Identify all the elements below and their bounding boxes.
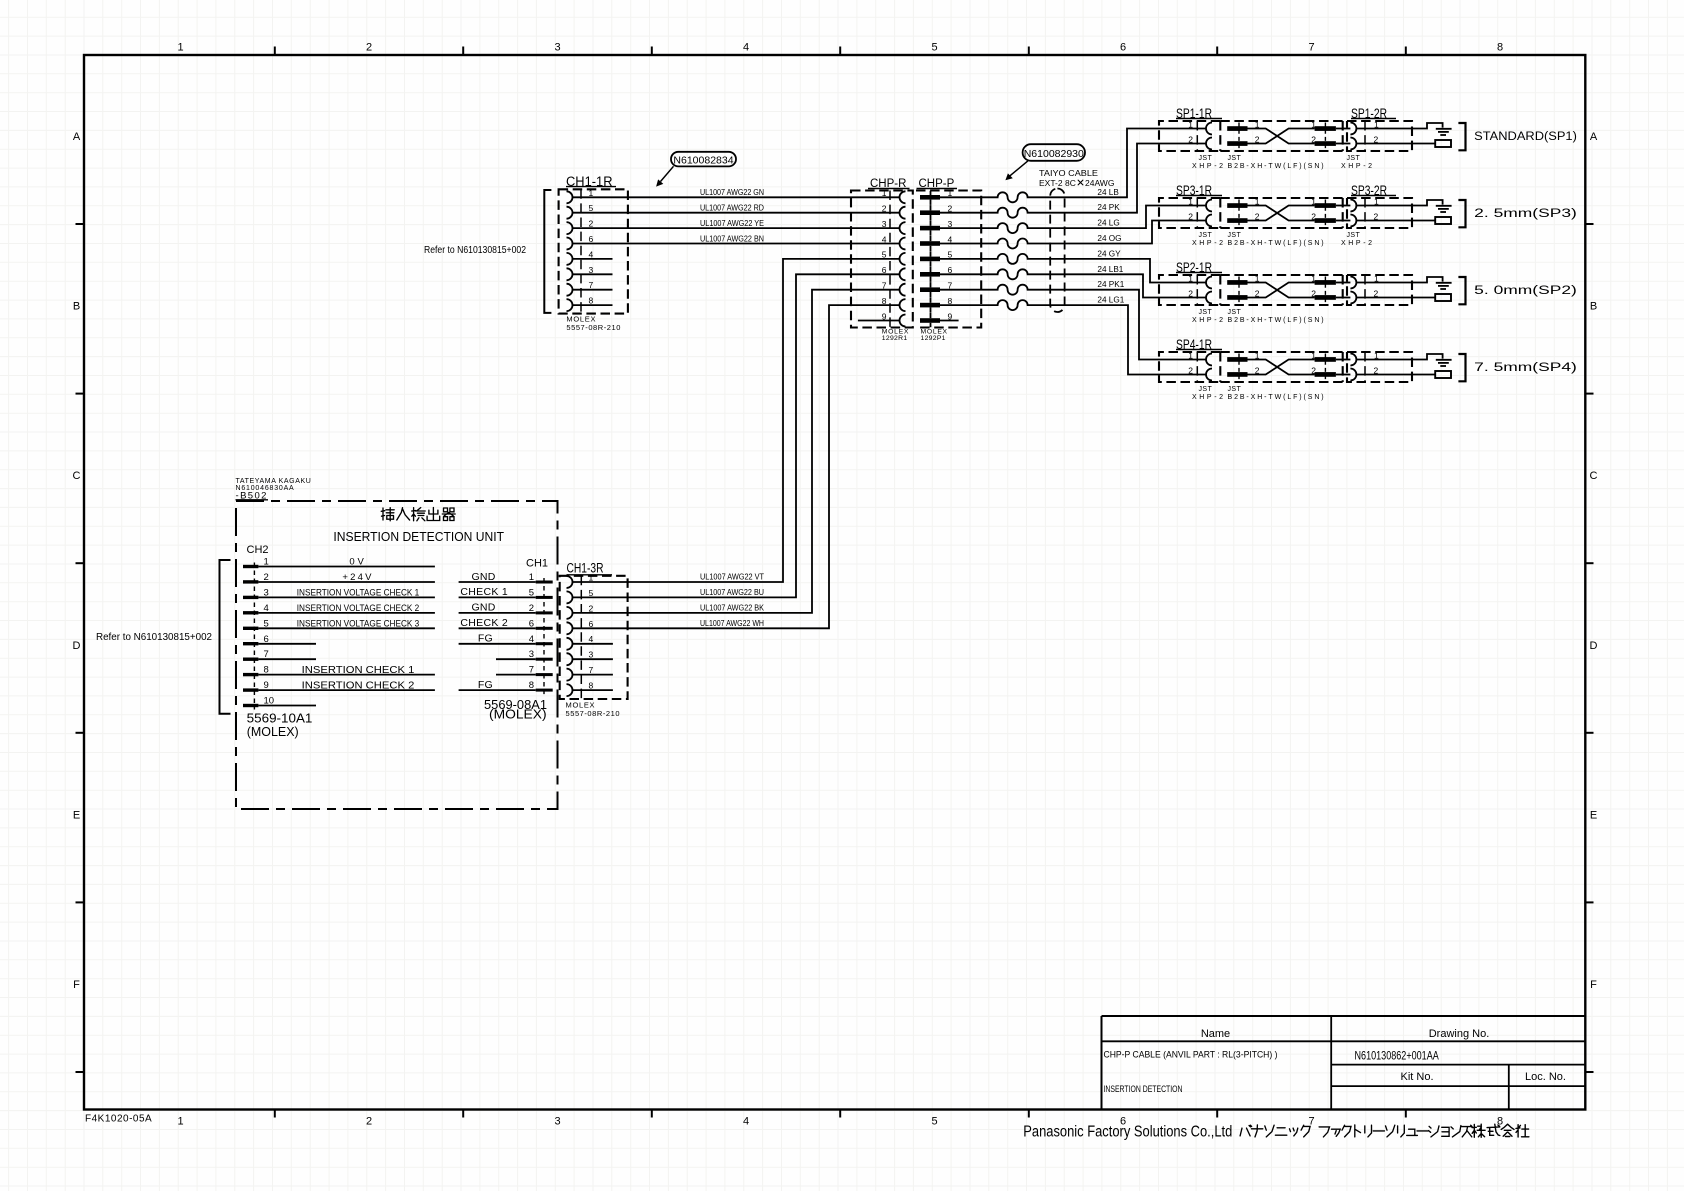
svg-text:7: 7 (589, 280, 594, 290)
insertion detection unit box -B502 (236, 501, 558, 809)
wire CH1 row 1 (459, 581, 536, 583)
svg-text:Panasonic Factory Solutions Co: Panasonic Factory Solutions Co.,Ltd (1023, 1124, 1232, 1141)
svg-text:1: 1 (882, 188, 887, 198)
wire SP3-2R.1 to ground (1356, 200, 1442, 206)
wire UL1007 AWG22 VT CH1-3R.1 to CHP-R.5 (573, 259, 900, 582)
wire CH1 row 7 (496, 674, 536, 676)
svg-text:INSERTION DETECTION UNIT: INSERTION DETECTION UNIT (333, 529, 504, 544)
connector CHP-P (MOLEX 1292P1) (916, 178, 981, 342)
svg-text:1: 1 (177, 42, 183, 54)
bracket CH2 (220, 560, 231, 714)
leader arrow N610082930 (1010, 161, 1029, 176)
connector SP3-1R (JST XHP-2) (1159, 183, 1226, 247)
svg-text:5: 5 (931, 1116, 937, 1128)
wire 24 LB CHP-P.1 to SP1-1R.1 (940, 129, 1206, 203)
svg-text:2. 5mm(SP3): 2. 5mm(SP3) (1474, 208, 1577, 220)
svg-text:D: D (73, 640, 81, 652)
svg-text:5. 0mm(SP2): 5. 0mm(SP2) (1474, 285, 1577, 297)
wire 24 OG CHP-P.4 to SP3-1R.2 (940, 221, 1206, 249)
svg-text:4: 4 (589, 634, 594, 644)
wire CH1 row 5 (459, 643, 536, 645)
svg-text:Name: Name (1201, 1028, 1230, 1040)
wire UL1007 AWG22 BU CH1-3R.5 to CHP-R.6 (573, 274, 900, 597)
svg-text:24 LB: 24 LB (1097, 188, 1119, 197)
svg-text:6: 6 (589, 234, 594, 244)
svg-text:N610082930: N610082930 (1024, 148, 1084, 160)
svg-text:1292R1: 1292R1 (882, 335, 908, 342)
wire 24 PK CHP-P.2 to SP1-1R.2 (940, 144, 1206, 218)
connector CH1 (MOLEX 5569-08A1) (484, 558, 553, 722)
svg-text:B2B-XH-TW(LF)(SN): B2B-XH-TW(LF)(SN) (1228, 394, 1326, 401)
connector CHP-R (MOLEX 1292R1) (851, 178, 913, 342)
svg-text:4: 4 (743, 42, 749, 54)
svg-text:INSERTION CHECK 2: INSERTION CHECK 2 (302, 679, 415, 691)
svg-text:5: 5 (589, 203, 594, 213)
svg-text:2: 2 (882, 204, 887, 214)
svg-text:24 LG1: 24 LG1 (1097, 296, 1124, 305)
svg-text:7: 7 (589, 665, 594, 675)
bracket SP1 (1458, 123, 1465, 150)
svg-text:C: C (1590, 470, 1598, 482)
svg-text:XHP-2: XHP-2 (1192, 317, 1226, 324)
svg-text:CH1-3R: CH1-3R (567, 561, 604, 576)
svg-text:XHP-2: XHP-2 (1341, 163, 1375, 170)
wire CH2.4 (INSERTION VOLTAGE CHECK 2) (258, 612, 435, 614)
wire UL1007 AWG22 BN CH1-1R.6 to CHP-R.4 (573, 243, 900, 245)
crossover wires SP2 pin1/pin2 (1248, 283, 1315, 298)
wire CH2.10 stub (258, 705, 316, 707)
connector CH1-1R (MOLEX 5557-08R-210) (559, 174, 628, 332)
wire SP2-2R.2 to terminal (1356, 297, 1435, 299)
svg-text:JST: JST (1347, 155, 1361, 162)
svg-text:D: D (1590, 640, 1598, 652)
wire CH2.9 (INSERTION CHECK 2) (258, 689, 435, 691)
svg-text:Loc. No.: Loc. No. (1525, 1071, 1566, 1083)
crossover wires SP1 pin1/pin2 (1248, 129, 1315, 144)
svg-text:JST: JST (1228, 232, 1242, 239)
crossover wires SP4 pin1/pin2 (1248, 360, 1315, 375)
footer company name Panasonic Factory Solutions Co.,Ltd (Japanese) (1023, 1124, 1529, 1141)
wire CH2.8 (INSERTION CHECK 1) (258, 674, 435, 676)
wire CH1 row 8 (459, 689, 536, 691)
svg-text:0V: 0V (349, 557, 366, 568)
svg-text:TAIYO CABLE: TAIYO CABLE (1039, 168, 1098, 178)
svg-text:A: A (1590, 131, 1598, 143)
svg-text:FG: FG (478, 679, 493, 691)
svg-text:2: 2 (366, 42, 372, 54)
svg-text:3: 3 (554, 42, 560, 54)
svg-text:(MOLEX): (MOLEX) (489, 707, 547, 722)
svg-text:FG: FG (478, 633, 493, 645)
connector SP3-2R (JST XHP-2) (1336, 183, 1412, 247)
svg-text:GND: GND (471, 602, 495, 614)
wire CH1 row 3 (459, 612, 536, 614)
svg-text:INSERTION VOLTAGE CHECK 3: INSERTION VOLTAGE CHECK 3 (297, 618, 420, 628)
svg-text:N610130862+001AA: N610130862+001AA (1355, 1051, 1440, 1063)
svg-text:F: F (1590, 979, 1597, 991)
connector pair JST B2B-XH-TW(LF)(SN) (SP4) (1220, 350, 1342, 401)
svg-text:B2B-XH-TW(LF)(SN): B2B-XH-TW(LF)(SN) (1228, 163, 1326, 170)
unit title (Japanese) sounyuu kenshutsuki (381, 508, 455, 521)
svg-text:CH2: CH2 (247, 544, 269, 556)
svg-text:E: E (73, 809, 80, 821)
svg-text:6: 6 (1120, 42, 1126, 54)
svg-text:JST: JST (1199, 309, 1213, 316)
svg-text:2: 2 (1188, 211, 1193, 221)
wire 24 GY CHP-P.5 to SP2-1R.1 (940, 254, 1206, 283)
ground symbol SP3 (1436, 205, 1452, 207)
wire UL1007 AWG22 WH CH1-3R.6 to CHP-R.8 (573, 305, 900, 628)
svg-text:5: 5 (931, 42, 937, 54)
svg-text:CHECK 1: CHECK 1 (460, 586, 508, 598)
svg-text:UL1007 AWG22 WH: UL1007 AWG22 WH (700, 619, 764, 628)
svg-text:JST: JST (1199, 386, 1213, 393)
wire CH2.2 (+24V) (258, 581, 435, 583)
wire UL1007 AWG22 YE CH1-1R.2 to CHP-R.3 (573, 227, 900, 229)
svg-text:1292P1: 1292P1 (921, 335, 946, 342)
title block (1102, 1016, 1587, 1110)
svg-text:8: 8 (589, 296, 594, 306)
svg-text:5557-08R-210: 5557-08R-210 (566, 323, 621, 332)
svg-text:UL1007 AWG22 BN: UL1007 AWG22 BN (700, 234, 764, 243)
svg-text:24 GY: 24 GY (1097, 249, 1121, 258)
bracket SP3 (1458, 200, 1465, 227)
wire SP1-2R.1 to ground (1356, 123, 1442, 129)
svg-text:JST: JST (1199, 232, 1213, 239)
wire 24 LG CHP-P.3 to SP3-1R.1 (940, 206, 1206, 234)
svg-text:JST: JST (1228, 386, 1242, 393)
svg-text:1: 1 (589, 188, 594, 198)
svg-text:1: 1 (589, 573, 594, 583)
svg-text:JST: JST (1347, 232, 1361, 239)
svg-text:1: 1 (1188, 350, 1193, 360)
svg-text:UL1007 AWG22 VT: UL1007 AWG22 VT (700, 573, 764, 582)
svg-text:UL1007 AWG22 YE: UL1007 AWG22 YE (700, 219, 764, 228)
bracket CH1-1R (544, 190, 551, 313)
wire SP1-2R.2 to terminal (1356, 143, 1435, 145)
svg-text:INSERTION CHECK 1: INSERTION CHECK 1 (302, 664, 415, 676)
svg-text:INSERTION VOLTAGE CHECK 2: INSERTION VOLTAGE CHECK 2 (297, 603, 420, 613)
terminal SP4 (1435, 371, 1451, 378)
svg-text:XHP-2: XHP-2 (1192, 163, 1226, 170)
svg-text:B: B (73, 301, 80, 313)
connector SP2-2R (JST XHP-2) (1336, 273, 1412, 305)
wire 24 LG1 CHP-P.8 to SP4-1R.2 (940, 300, 1206, 374)
svg-text:INSERTION VOLTAGE CHECK 1: INSERTION VOLTAGE CHECK 1 (297, 587, 420, 597)
wire SP3-2R.2 to terminal (1356, 220, 1435, 222)
connector CH1-3R (MOLEX 5557-08R-210) (560, 561, 628, 719)
wire CH2.1 (0V) (258, 566, 435, 568)
connector SP4-2R (JST XHP-2) (1336, 350, 1412, 382)
leader arrow N610082834 (661, 166, 674, 181)
svg-text:24 PK1: 24 PK1 (1097, 280, 1124, 289)
wire CH2.3 (INSERTION VOLTAGE CHECK 1) (258, 596, 435, 598)
svg-text:5557-08R-210: 5557-08R-210 (566, 709, 621, 718)
wire UL1007 AWG22 RD CH1-1R.5 to CHP-R.2 (573, 212, 900, 214)
svg-text:3: 3 (554, 1116, 560, 1128)
connector pair JST B2B-XH-TW(LF)(SN) (SP3) (1220, 196, 1342, 247)
connector pair JST B2B-XH-TW(LF)(SN) (SP1) (1220, 119, 1342, 170)
svg-text:24AWG: 24AWG (1085, 178, 1114, 188)
svg-text:4: 4 (743, 1116, 749, 1128)
ground symbol SP1 (1436, 128, 1452, 130)
svg-text:1: 1 (177, 1116, 183, 1128)
svg-text:EXT-2 8C: EXT-2 8C (1039, 178, 1076, 188)
svg-text:UL1007 AWG22 BK: UL1007 AWG22 BK (700, 603, 764, 612)
svg-text:B2B-XH-TW(LF)(SN): B2B-XH-TW(LF)(SN) (1228, 317, 1326, 324)
svg-text:Refer to N610130815+002: Refer to N610130815+002 (424, 245, 526, 256)
wire SP2-2R.1 to ground (1356, 277, 1442, 283)
svg-text:JST: JST (1199, 155, 1213, 162)
svg-text:F4K1020-05A: F4K1020-05A (85, 1114, 152, 1125)
svg-text:A: A (73, 131, 81, 143)
svg-text:1: 1 (1188, 196, 1193, 206)
svg-text:JST: JST (1228, 155, 1242, 162)
svg-text:F: F (73, 979, 80, 991)
svg-text:Refer to N610130815+002: Refer to N610130815+002 (96, 632, 212, 643)
wire CH2.5 (INSERTION VOLTAGE CHECK 3) (258, 627, 435, 629)
svg-text:6: 6 (589, 619, 594, 629)
svg-text:C: C (73, 470, 81, 482)
svg-text:UL1007 AWG22 BU: UL1007 AWG22 BU (700, 588, 764, 597)
svg-text:XHP-2: XHP-2 (1192, 240, 1226, 247)
svg-text:7: 7 (1308, 42, 1314, 54)
balloon N610082930 (1023, 144, 1085, 161)
svg-text:1: 1 (1188, 119, 1193, 129)
svg-text:4: 4 (589, 249, 594, 259)
ground symbol SP2 (1436, 282, 1452, 284)
connector SP2-1R (JST XHP-2) (1159, 260, 1226, 324)
ground symbol SP4 (1436, 359, 1452, 361)
wire CH1 row 6 (496, 658, 536, 660)
svg-text:2: 2 (1188, 365, 1193, 375)
connector SP4-1R (JST XHP-2) (1159, 337, 1226, 401)
svg-text:24 PK: 24 PK (1097, 203, 1120, 212)
wire CH2.6 stub (258, 643, 316, 645)
svg-text:24 LG: 24 LG (1097, 219, 1119, 228)
svg-text:24 LB1: 24 LB1 (1097, 265, 1123, 274)
svg-text:B2B-XH-TW(LF)(SN): B2B-XH-TW(LF)(SN) (1228, 240, 1326, 247)
svg-text:+24V: +24V (342, 572, 373, 583)
svg-text:N610082834: N610082834 (673, 155, 733, 167)
wire SP4-2R.2 to terminal (1356, 374, 1435, 376)
terminal SP1 (1435, 140, 1451, 147)
svg-text:2: 2 (1188, 288, 1193, 298)
svg-text:UL1007 AWG22 GN: UL1007 AWG22 GN (700, 188, 764, 197)
connector SP1-1R (JST XHP-2) (1159, 106, 1226, 170)
svg-text:2: 2 (1188, 134, 1193, 144)
wire CH1 row 2 (459, 596, 536, 598)
wire CH1 row 4 (459, 627, 536, 629)
svg-text:JST: JST (1228, 309, 1242, 316)
svg-text:8: 8 (589, 681, 594, 691)
svg-text:E: E (1590, 809, 1597, 821)
balloon N610082834 (671, 152, 736, 167)
crossover wires SP3 pin1/pin2 (1248, 206, 1315, 221)
svg-text:3: 3 (589, 265, 594, 275)
bracket SP2 (1458, 277, 1465, 304)
svg-text:8: 8 (1497, 42, 1503, 54)
wire UL1007 AWG22 BK CH1-3R.2 to CHP-R.7 (573, 290, 900, 613)
svg-text:INSERTION DETECTION: INSERTION DETECTION (1104, 1084, 1183, 1094)
svg-text:XHP-2: XHP-2 (1341, 240, 1375, 247)
connector pair JST B2B-XH-TW(LF)(SN) (SP2) (1220, 273, 1342, 324)
svg-text:3: 3 (882, 219, 887, 229)
svg-text:XHP-2: XHP-2 (1192, 394, 1226, 401)
svg-text:4: 4 (882, 234, 887, 244)
cable jacket TAIYO CABLE EXT-2 8C x 24AWG (1050, 189, 1064, 313)
svg-text:24 OG: 24 OG (1097, 234, 1121, 243)
wire 24 PK1 CHP-P.7 to SP4-1R.1 (940, 285, 1206, 360)
wire UL1007 AWG22 GN CH1-1R.1 to CHP-R.1 (573, 196, 900, 198)
terminal SP3 (1435, 217, 1451, 224)
svg-text:2: 2 (366, 1116, 372, 1128)
bracket SP4 (1458, 354, 1465, 381)
svg-text:1: 1 (1188, 273, 1193, 283)
wire SP4-2R.1 to ground (1356, 354, 1442, 360)
wire 24 LB1 CHP-P.6 to SP2-1R.2 (940, 269, 1206, 297)
svg-text:7: 7 (1308, 1116, 1314, 1128)
svg-text:3: 3 (589, 650, 594, 660)
svg-text:5: 5 (589, 588, 594, 598)
svg-text:UL1007 AWG22 RD: UL1007 AWG22 RD (700, 204, 764, 213)
svg-text:GND: GND (471, 571, 495, 583)
svg-text:CHECK 2: CHECK 2 (460, 617, 508, 629)
svg-text:STANDARD(SP1): STANDARD(SP1) (1474, 131, 1577, 143)
svg-text:2: 2 (589, 219, 594, 229)
wire CH2.7 stub (258, 658, 316, 660)
svg-text:7. 5mm(SP4): 7. 5mm(SP4) (1474, 362, 1577, 374)
connector CH2 (MOLEX 5569-10A1) (243, 544, 312, 739)
connector SP1-2R (JST XHP-2) (1336, 106, 1412, 170)
svg-text:Kit No.: Kit No. (1400, 1071, 1433, 1083)
svg-text:2: 2 (589, 603, 594, 613)
svg-text:CHP-P CABLE (ANVIL PART : RL(3: CHP-P CABLE (ANVIL PART : RL(3-PITCH) ) (1104, 1050, 1278, 1060)
svg-text:Drawing No.: Drawing No. (1429, 1028, 1490, 1040)
svg-text:(MOLEX): (MOLEX) (247, 724, 299, 739)
svg-text:CH1: CH1 (526, 558, 548, 570)
terminal SP2 (1435, 294, 1451, 301)
svg-text:B: B (1590, 301, 1597, 313)
